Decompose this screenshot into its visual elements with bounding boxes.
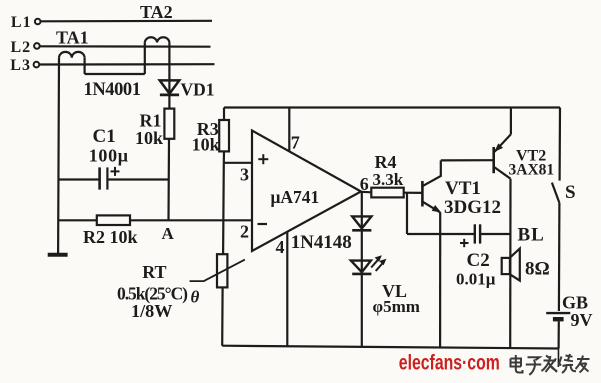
svg-text:2: 2 (240, 222, 249, 242)
diode 1N4148 (352, 216, 371, 230)
wire pin 7 (288, 108, 290, 152)
wire RT bottom lead (221, 287, 224, 345)
svg-text:R2 10k: R2 10k (83, 227, 138, 247)
wire TA2 right leg to R1 through VD1 (168, 42, 170, 108)
svg-text:RT: RT (142, 262, 166, 282)
watermark chinese glyph fa (542, 356, 558, 373)
svg-text:VD1: VD1 (181, 79, 215, 99)
svg-text:φ5mm: φ5mm (373, 297, 420, 316)
svg-text:6: 6 (360, 174, 369, 194)
LED arrows (371, 255, 386, 271)
wire R3-RT vertical (222, 163, 225, 254)
resistor R3 (219, 120, 229, 151)
wire VT2 collector down through speaker (509, 179, 511, 349)
wire pin 3 stub (224, 162, 252, 164)
terminal L2 (34, 43, 40, 49)
wire pin 4 (286, 232, 288, 347)
ground (48, 253, 68, 257)
wire VT1 emitter down (439, 212, 441, 347)
wire C2 branch horizontal (407, 233, 475, 235)
wire L1 (41, 20, 212, 23)
svg-text:μA741: μA741 (271, 187, 320, 207)
transformer TA2 winding (145, 37, 170, 42)
terminal L1 (35, 19, 41, 25)
svg-text:elecfans·com: elecfans·com (399, 351, 500, 375)
capacitor C1 (100, 167, 108, 189)
switch S (552, 108, 560, 312)
watermark chinese glyph you (576, 356, 590, 373)
svg-text:10k: 10k (192, 135, 220, 155)
wire top rail (224, 106, 560, 108)
svg-text:L1: L1 (11, 14, 32, 31)
wire output pin 6 (361, 191, 371, 194)
svg-text:VT1: VT1 (445, 178, 481, 199)
diode VD1 (160, 80, 180, 95)
capacitor C2 (475, 224, 480, 243)
svg-text:L3: L3 (10, 57, 31, 74)
svg-text:3.3k: 3.3k (373, 170, 404, 189)
wire A line right (to op-amp pin 2) (130, 219, 252, 221)
wire TA2 left leg (144, 42, 146, 74)
svg-text:TA1: TA1 (56, 28, 89, 48)
wire R3 bottom lead (223, 151, 225, 162)
watermark chinese glyph shao (559, 354, 577, 373)
wire C1 left (58, 178, 99, 180)
svg-text:100μ: 100μ (89, 146, 129, 166)
op-amp minus input sign (258, 223, 268, 225)
svg-text:C1: C1 (93, 126, 116, 147)
svg-text:R4: R4 (375, 152, 397, 172)
resistor R2 (97, 215, 130, 225)
svg-text:3DG12: 3DG12 (444, 197, 501, 218)
terminal L3 (34, 62, 40, 68)
wire C2 to speaker line (481, 233, 511, 235)
wire TA1 right leg (83, 58, 85, 74)
wire R4 to VT1 base (404, 192, 423, 194)
wire R3 top lead (223, 108, 225, 121)
svg-text:3: 3 (240, 165, 249, 185)
resistor R1 (164, 109, 174, 139)
wire R1 to node A (167, 139, 170, 221)
op-amp U1 μA741 (252, 131, 361, 252)
svg-text:1/8W: 1/8W (131, 301, 173, 321)
transistor VT1 (422, 160, 441, 212)
svg-text:θ: θ (191, 288, 200, 307)
wire bottom rail (222, 346, 558, 349)
speaker BL (502, 249, 520, 281)
wire L2 (40, 45, 211, 48)
svg-text:10k: 10k (135, 128, 163, 148)
svg-text:9V: 9V (571, 310, 593, 330)
wire VT1 collector to VT2 base (441, 159, 494, 161)
wire C1 right (108, 178, 169, 180)
svg-text:1N4001: 1N4001 (84, 80, 142, 100)
svg-text:0.01μ: 0.01μ (456, 270, 496, 289)
svg-text:1N4148: 1N4148 (291, 232, 352, 253)
resistor R4 (371, 188, 403, 198)
wire TA1-TA2 connector (85, 73, 145, 75)
thermistor RT (190, 254, 245, 287)
C1 plus sign (111, 167, 120, 176)
wire L3 (39, 63, 214, 66)
wire C2 branch vertical (406, 193, 408, 234)
LED VL (351, 261, 372, 274)
svg-text:S: S (565, 182, 576, 203)
svg-text:L2: L2 (11, 39, 32, 56)
wire A line left (58, 219, 97, 221)
watermark chinese glyph zi (526, 357, 542, 375)
battery GB (546, 313, 570, 367)
svg-text:TA2: TA2 (140, 2, 173, 22)
svg-text:BL: BL (518, 225, 545, 246)
svg-text:7: 7 (291, 133, 300, 153)
op-amp plus input sign (258, 154, 268, 164)
wire left vertical (TA1 to ground) (57, 58, 60, 254)
svg-text:8Ω: 8Ω (525, 259, 550, 280)
watermark chinese glyph dian (511, 354, 590, 375)
wire pin6 to bottom rail through diode chain (361, 192, 363, 347)
svg-text:3AX81: 3AX81 (509, 162, 555, 179)
transistor VT2 (494, 108, 511, 179)
svg-text:A: A (162, 224, 175, 243)
svg-text:4: 4 (276, 237, 285, 257)
C2 plus sign (460, 239, 469, 247)
svg-text:C2: C2 (467, 250, 490, 271)
transformer TA1 winding (59, 52, 85, 58)
